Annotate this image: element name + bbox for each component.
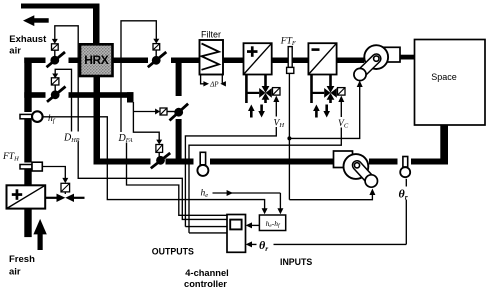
label: theta_r at duct bbox=[397, 187, 413, 202]
wire: left fresh-air duct vertical segment 3 bbox=[24, 169, 31, 186]
label: V_C bbox=[336, 117, 351, 130]
controller U1 (4-channel) bbox=[227, 215, 246, 253]
svg-text:ΔP: ΔP bbox=[209, 81, 219, 89]
svg-text:air: air bbox=[9, 45, 21, 56]
damper D4 on recirculation duct bbox=[133, 104, 188, 121]
wire: D_FA output to controller bbox=[127, 143, 228, 216]
fresh air arrow bbox=[9, 219, 47, 278]
wire: supply duct arm right of damper D1 to HRX bbox=[69, 58, 81, 64]
wire: return duct segment 4 bbox=[369, 159, 398, 165]
svg-text:Fresh: Fresh bbox=[9, 254, 35, 265]
wire: supply duct filter to heating coil bbox=[223, 58, 244, 64]
wire: junction to supply fan bbox=[289, 81, 362, 139]
node: FT_F junction bbox=[287, 136, 291, 140]
wire: left fresh-air duct vertical segment 1 bbox=[24, 58, 31, 113]
wire: FT_H to preheater valve bbox=[42, 167, 68, 184]
label: V_H bbox=[272, 117, 287, 130]
label: D_FA bbox=[117, 132, 133, 144]
sensor h_f probe in fresh air duct bbox=[20, 111, 56, 124]
wire: stub at end of exhaust duct bbox=[127, 92, 134, 102]
svg-text:air: air bbox=[9, 267, 21, 278]
svg-text:Space: Space bbox=[431, 72, 457, 82]
damper D2 bbox=[47, 69, 72, 133]
sensor: thermometer theta_r on return duct bbox=[400, 157, 410, 178]
wire: return duct riser from Space bbox=[440, 125, 448, 165]
wire: supply duct cooling coil to supply fan bbox=[336, 58, 364, 64]
label: Exhaust air bbox=[9, 34, 47, 57]
label: theta_r at controller input bbox=[257, 238, 274, 253]
damper D3 bbox=[121, 21, 166, 133]
wire: supply duct arm left of damper D1 bbox=[24, 58, 45, 64]
sensor: thermometer on return duct (h_e) bbox=[197, 152, 208, 176]
wire: left fresh-air duct below preheater bbox=[24, 209, 31, 238]
svg-text:Exhaust: Exhaust bbox=[9, 34, 47, 45]
wire: exhaust duct arm left of damper D2 bbox=[24, 92, 45, 98]
HRX heat recovery exchanger bbox=[80, 44, 113, 76]
wire: h_e-h_f box output to controller bbox=[246, 222, 260, 228]
filter F bbox=[200, 30, 224, 75]
pipes + 3-way valve V_C of cooling coil bbox=[312, 75, 346, 118]
wire: left fresh-air duct vertical segment 2 bbox=[24, 119, 31, 163]
label: h_e with arrow bbox=[201, 189, 284, 215]
wire: theta_r to controller bbox=[246, 179, 407, 248]
valve of preheater bbox=[45, 183, 84, 202]
wire: recirculation duct upper bbox=[176, 63, 182, 97]
Space box bbox=[415, 40, 486, 126]
svg-text:INPUTS: INPUTS bbox=[280, 257, 312, 267]
cooling coil -C bbox=[308, 43, 336, 74]
wire: return duct segment 5 bbox=[411, 159, 448, 165]
wire: recirculation duct lower bbox=[176, 119, 182, 159]
label: 4-channel controller bbox=[184, 268, 229, 289]
heating coil +H bbox=[244, 43, 272, 74]
wire: exhaust duct arm right of damper D2 bbox=[69, 92, 134, 98]
wire: supply fan outlet to Space bbox=[400, 55, 416, 60]
svg-text:OUTPUTS: OUTPUTS bbox=[152, 247, 194, 257]
preheater coil bbox=[7, 185, 46, 208]
svg-text:controller: controller bbox=[184, 279, 227, 289]
exhaust air arrow bbox=[23, 15, 49, 26]
sensor: filter dP taps bbox=[201, 75, 226, 89]
wire: supply duct damper D3 to filter bbox=[171, 58, 200, 64]
svg-text:4-channel: 4-channel bbox=[185, 268, 228, 278]
wire: V_C control from controller bbox=[189, 96, 344, 233]
wire: D_HR output to controller bbox=[78, 142, 227, 220]
sensor FT_H probe bbox=[2, 152, 42, 171]
wire: return duct segment 3 bbox=[210, 159, 335, 165]
pipes + 3-way valve V_H of heating coil bbox=[246, 75, 280, 118]
h_e-h_f computation box bbox=[259, 215, 285, 231]
wire: h_f signal to h_e-h_f box bbox=[44, 117, 268, 215]
label: D_HR bbox=[63, 132, 81, 144]
wire: supply duct heating coil to cooling coil bbox=[272, 58, 309, 64]
sensor FT_F bbox=[280, 37, 297, 200]
damper D5 on return duct bbox=[133, 102, 170, 168]
wire: return duct segment 2 bbox=[166, 159, 194, 165]
svg-text:HRX: HRX bbox=[84, 53, 109, 67]
wire: exhaust riser from HRX top bbox=[93, 4, 100, 45]
svg-text:Filter: Filter bbox=[201, 30, 221, 40]
supply fan bbox=[354, 45, 400, 80]
wire: riser below HRX bbox=[94, 75, 101, 165]
wire: junction to return fan bbox=[289, 189, 375, 200]
wire: return duct segment 1 bbox=[94, 159, 151, 165]
wire: top exhaust duct horizontal bbox=[21, 4, 99, 9]
return fan bbox=[334, 151, 378, 187]
wire: supply duct HRX to damper D3 bbox=[113, 58, 149, 64]
wire: V_H control from controller bbox=[185, 96, 279, 227]
damper D1 bbox=[47, 26, 79, 133]
